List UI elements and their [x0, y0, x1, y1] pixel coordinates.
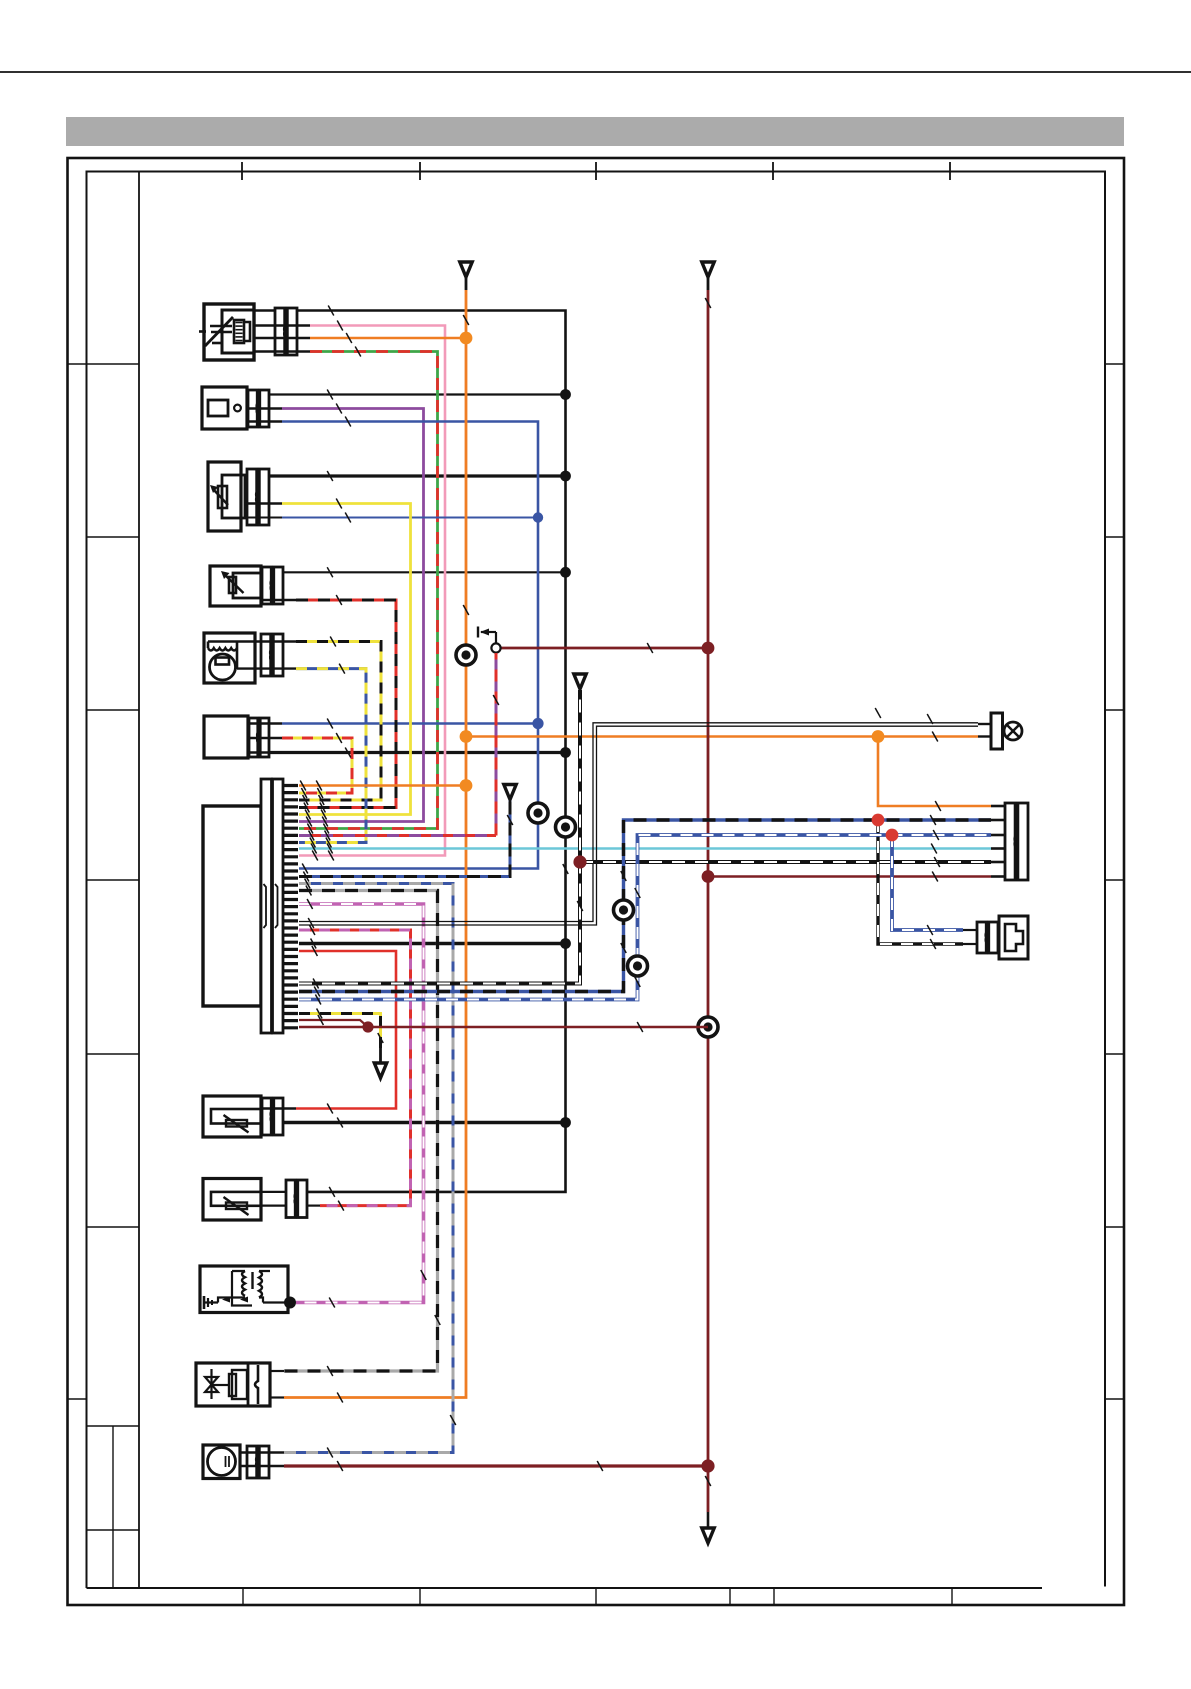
connector of B6: [249, 718, 258, 757]
wire red/black dashed B4: [296, 600, 396, 808]
page header rule: [0, 71, 1191, 73]
wire red/orchid dashed ECU to B8: [299, 930, 411, 1206]
pin stubs of X2: [963, 930, 977, 944]
intake air temperature sensor B4: [210, 566, 262, 606]
junction dot red on blue/white: [886, 829, 899, 842]
wire yellow B3: [282, 504, 411, 815]
connector of B3: [247, 469, 257, 525]
shield mark on blue bus: [528, 803, 548, 823]
junction dots blue bus: [532, 512, 543, 729]
wire orchid/white dashed ECU to ignition coil: [296, 904, 424, 1303]
air flow meter B1: [199, 304, 254, 360]
off-page arrow maroon bottom: [702, 1512, 714, 1543]
wire blue/black dashed ECU to X1 and X2: [299, 820, 991, 992]
wire green/red dashed B1: [299, 352, 438, 829]
wire red/purple dashed ECU to switch: [299, 834, 496, 837]
shield mark on orange: [456, 645, 476, 665]
left reference column line: [138, 172, 140, 1589]
connector of B5: [261, 634, 271, 676]
wire black ground bus (sensors to x=565 vertical): [254, 311, 566, 1192]
pin stubs of X1: [991, 806, 1005, 877]
oxygen sensor B7: [203, 1096, 262, 1137]
pins of B7: [261, 1107, 296, 1109]
left column cell split: [112, 1426, 114, 1588]
wire code marks: [300, 298, 941, 1486]
fuel pump M1: [203, 1445, 240, 1479]
EGR solenoid valve Y1: [196, 1363, 270, 1406]
down arrow yellow/black: [374, 1063, 386, 1078]
connector of B8: [286, 1180, 295, 1218]
off-page arrow black/white: [574, 674, 586, 689]
ECU connector housing: [261, 779, 283, 1033]
pins of B6: [248, 724, 282, 753]
junction dot maroon on black/white: [573, 855, 586, 868]
inner drawing frame: [87, 172, 1106, 1589]
coolant temperature sensor B3: [208, 462, 245, 531]
junction dots orange: [460, 332, 885, 792]
wire yellow/black dashed ECU down arrow: [299, 1014, 381, 1049]
warning lamp H1: [991, 713, 1022, 749]
wire twisted pair ECU to lamp: [299, 723, 978, 925]
diagnostic connector X2: [977, 916, 1028, 959]
junction dot maroon ECU ground: [362, 1021, 373, 1032]
off-page arrow maroon top: [702, 262, 714, 290]
harness connector X1: [1005, 803, 1015, 880]
off-page arrow orange: [460, 262, 472, 290]
pins of Y1: [270, 1371, 284, 1398]
wire blue/gray dashed ECU to fuel pump: [284, 884, 453, 1453]
gray title bar: [66, 117, 1124, 146]
frame tick marks bottom: [243, 1588, 952, 1605]
shield mark on blue/black: [614, 900, 634, 920]
fuel level sender B5: [204, 633, 255, 683]
ECU control unit A1: [203, 806, 261, 1006]
junction ground bus dots: [560, 389, 571, 1128]
pins of M1: [240, 1453, 284, 1467]
pin of B8: [307, 1204, 320, 1206]
wire orange supply net: [284, 290, 991, 1398]
shield mark on maroon: [698, 1017, 718, 1037]
wire blue B2/B3/B6 bus: [282, 422, 538, 869]
connector of M1: [247, 1446, 257, 1478]
ignition switch contact: [478, 627, 501, 653]
pins of B3: [245, 504, 282, 518]
wire red ECU to B7: [296, 951, 396, 1109]
junction dots maroon: [701, 642, 714, 1473]
ECU connector pin comb: [283, 786, 298, 1028]
oxygen sensor B8: [203, 1179, 286, 1221]
shield mark on blue/white: [628, 956, 648, 976]
wire black/blue dashed ECU off-page: [299, 799, 510, 877]
pins of B1: [254, 326, 310, 352]
wire blue/yellow dashed B5: [296, 669, 366, 843]
outer drawing frame: [68, 158, 1125, 1605]
connector of B2: [248, 390, 257, 427]
pins of B4: [261, 599, 296, 601]
sensor B6: [204, 716, 248, 758]
wire maroon battery net: [284, 290, 991, 1512]
wire cyan ECU to X1: [299, 847, 991, 849]
wire black/white dashed ECU to X1: [299, 690, 991, 984]
ignition coil T1: [200, 1266, 288, 1313]
connector of B1: [275, 308, 285, 355]
wire purple B2: [282, 409, 424, 822]
wire blue/white dashed ECU to X1 and X2: [299, 835, 991, 1000]
pins of B5: [237, 642, 296, 669]
throttle position sensor B2: [202, 387, 247, 429]
frame tick marks top: [242, 162, 950, 180]
wire pink B1 signal: [299, 326, 445, 856]
left margin dividers: [68, 364, 140, 1399]
wire yellow/black dashed B5: [296, 642, 381, 801]
junction dot on T1 output: [284, 1297, 296, 1309]
pins of B2: [247, 409, 282, 422]
connector of B4: [262, 567, 271, 604]
left column dividers: [87, 537, 140, 1530]
right margin dividers: [1105, 364, 1124, 1399]
wire yellow/red dashed B6 to ECU: [282, 738, 352, 793]
junction dot red on blue/black: [872, 814, 885, 827]
wire gray/black dashed ECU to EGR valve: [284, 891, 438, 1372]
lamp pin stubs: [978, 724, 991, 737]
wire maroon ECU ground pins: [299, 1020, 708, 1027]
off-page arrow black/blue: [504, 785, 516, 800]
connector of B7: [262, 1098, 271, 1135]
shield mark on ground bus: [556, 817, 576, 837]
